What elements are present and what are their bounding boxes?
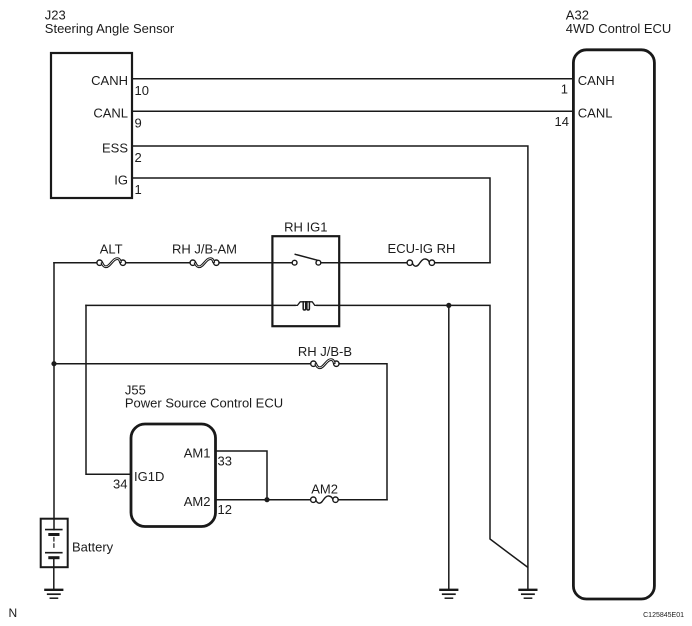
ground below ESS line bbox=[520, 590, 537, 598]
wire ECU-IG RH fuse to IG corner bbox=[435, 262, 490, 264]
ground below coil junction bbox=[440, 590, 457, 598]
svg-text:RH J/B-B: RH J/B-B bbox=[298, 344, 352, 359]
svg-text:ECU-IG RH: ECU-IG RH bbox=[388, 241, 456, 256]
wire coil left vertical down to J55 IG1D pin 34 bbox=[86, 305, 131, 474]
wire coil out to junction and corner down with diagonal to ground line bbox=[317, 305, 528, 567]
wire CANH from J23 pin 10 to A32 pin 1 bbox=[132, 78, 573, 80]
svg-text:CANH: CANH bbox=[578, 73, 615, 88]
fusible link ALT bbox=[97, 259, 126, 267]
svg-text:14: 14 bbox=[555, 114, 569, 129]
fusible link RH J/B-B bbox=[311, 360, 339, 368]
battery bbox=[41, 519, 68, 568]
junction dot coil row ground drop bbox=[446, 303, 451, 308]
relay switch contact circles and lever bbox=[292, 260, 297, 265]
wire ALT to RH J/B-AM bbox=[126, 262, 190, 264]
svg-text:AM2: AM2 bbox=[311, 482, 338, 497]
wire battery negative to ground bbox=[53, 558, 55, 590]
svg-text:CANH: CANH bbox=[91, 73, 128, 88]
wire coil row from left vertical through relay coil bbox=[86, 304, 295, 306]
wire switch row left segment to ALT bbox=[54, 262, 97, 264]
svg-text:CANL: CANL bbox=[93, 106, 128, 121]
svg-text:1: 1 bbox=[135, 182, 142, 197]
svg-text:RH IG1: RH IG1 bbox=[284, 219, 327, 234]
svg-text:10: 10 bbox=[135, 83, 149, 98]
svg-text:Battery: Battery bbox=[72, 539, 114, 554]
svg-text:34: 34 bbox=[113, 477, 127, 492]
ECU box A32 4WD Control ECU bbox=[573, 50, 654, 599]
svg-text:33: 33 bbox=[218, 453, 232, 468]
svg-text:ESS: ESS bbox=[102, 140, 128, 155]
svg-text:1: 1 bbox=[561, 81, 568, 96]
svg-text:ALT: ALT bbox=[100, 241, 123, 256]
svg-text:Power Source Control ECU: Power Source Control ECU bbox=[125, 396, 283, 411]
wire RH J/B-B row from left vertical to fuse bbox=[54, 363, 311, 365]
ground below battery bbox=[45, 590, 62, 598]
wire left vertical from ALT row to battery bbox=[53, 263, 55, 530]
svg-text:RH J/B-AM: RH J/B-AM bbox=[172, 241, 237, 256]
fusible link RH J/B-AM bbox=[190, 259, 219, 267]
fuse ECU-IG RH bbox=[407, 259, 435, 266]
wire CANL from J23 pin 9 to A32 pin 14 bbox=[132, 110, 573, 112]
junction dot AM1/AM2 bbox=[264, 497, 269, 502]
wire AM1 pin 33 loop down to AM2 row bbox=[216, 451, 268, 500]
wire RH J/B-AM into relay to switch contact bbox=[219, 262, 292, 264]
svg-text:IG: IG bbox=[114, 172, 128, 187]
svg-text:AM2: AM2 bbox=[184, 494, 211, 509]
wire ESS from J23 pin 2 down to ground bbox=[132, 146, 528, 590]
svg-text:CANL: CANL bbox=[578, 106, 613, 121]
wire RH J/B-B fuse corner down to AM2 row bbox=[339, 364, 387, 500]
svg-text:4WD Control ECU: 4WD Control ECU bbox=[566, 21, 671, 36]
svg-text:AM1: AM1 bbox=[184, 445, 211, 460]
svg-text:N: N bbox=[9, 606, 18, 620]
svg-text:12: 12 bbox=[218, 502, 232, 517]
wire AM2 fuse to right corner bbox=[339, 499, 388, 501]
junction dot at left vertical and RH J/B-B row bbox=[51, 361, 56, 366]
wire ground drop from coil junction bbox=[448, 305, 450, 589]
wire switch contact out of relay to ECU-IG RH fuse bbox=[321, 262, 407, 264]
svg-text:Steering Angle Sensor: Steering Angle Sensor bbox=[45, 21, 175, 36]
svg-text:9: 9 bbox=[135, 115, 142, 130]
svg-text:IG1D: IG1D bbox=[134, 469, 164, 484]
relay coil symbol bbox=[295, 302, 317, 310]
connector box J23 Steering Angle Sensor bbox=[51, 53, 132, 198]
wire IG from J23 pin 1 down to ECU-IG RH row bbox=[132, 178, 490, 263]
svg-text:2: 2 bbox=[135, 150, 142, 165]
relay box RH IG1 bbox=[272, 236, 339, 326]
wire AM2 pin 12 to AM2 fuse bbox=[216, 499, 311, 501]
svg-text:C125845E01: C125845E01 bbox=[643, 612, 684, 619]
ECU box J55 Power Source Control ECU bbox=[131, 424, 216, 527]
fuse AM2 bbox=[311, 496, 339, 503]
